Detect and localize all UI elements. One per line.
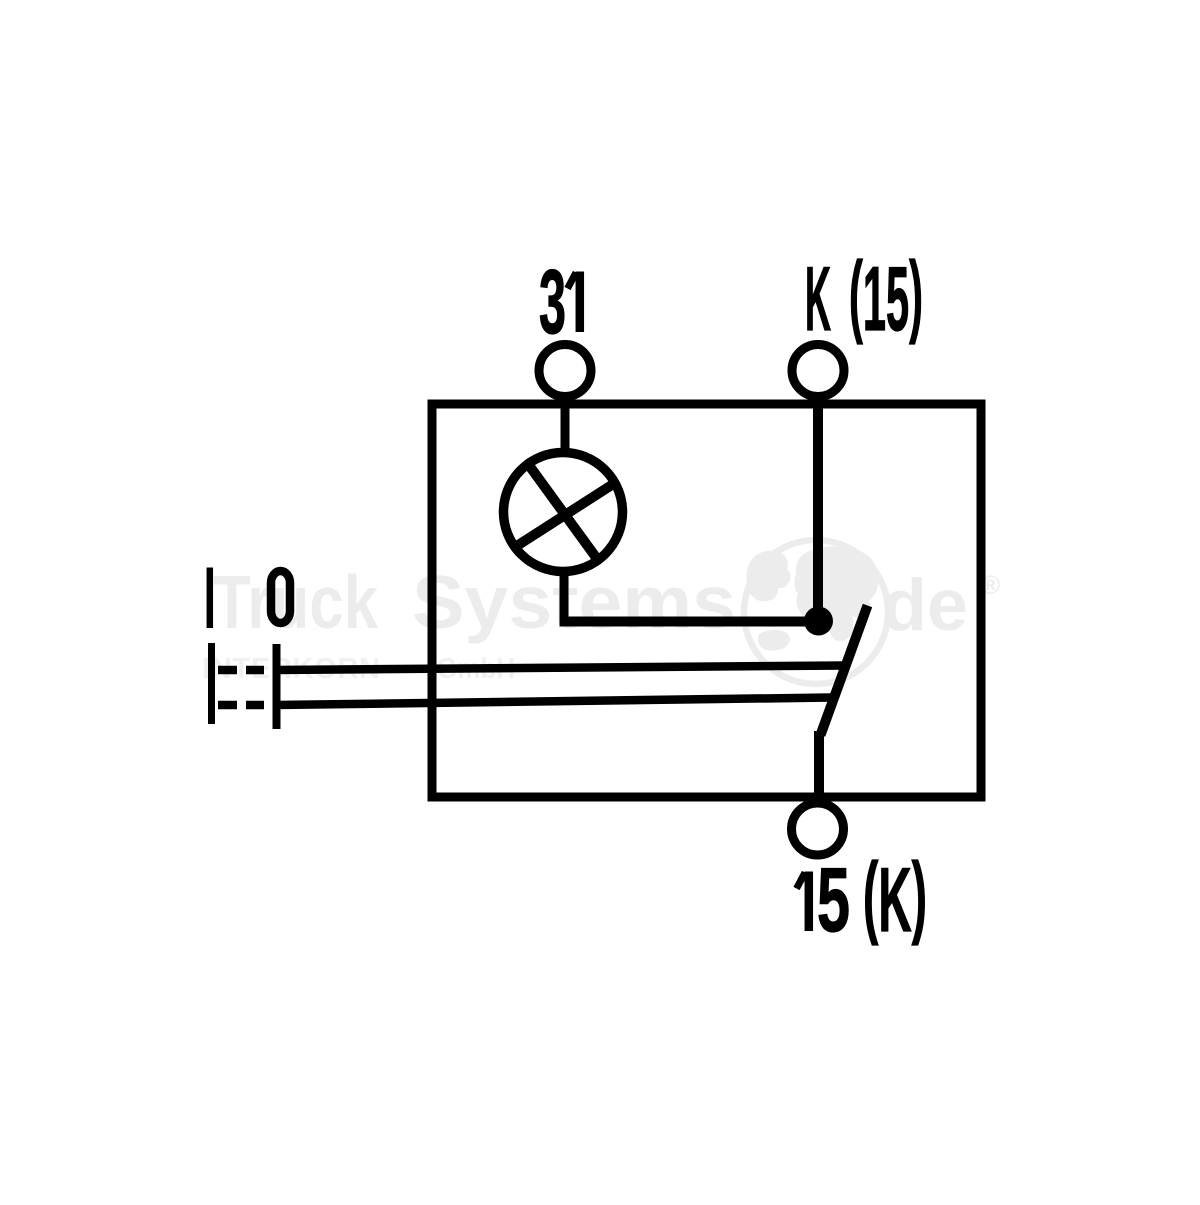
wire K(15) down to junction [813,396,823,621]
terminal 15(K) label [805,872,814,932]
wire 31 to lamp [561,394,570,455]
actuator dashed link lower [218,701,264,710]
svg-text:(15): (15) [849,244,923,350]
switch body box [432,404,981,797]
wire lamp to junction [560,617,819,627]
actuator rod lower [276,698,832,706]
wire lever to terminal 15(K) [814,731,824,806]
lamp cross stroke 2 [514,482,616,547]
svg-text:(K): (K) [863,845,927,951]
watermark globe [744,540,888,684]
svg-text:Truck: Truck [213,560,378,644]
actuator rod upper [276,666,845,671]
svg-text:K: K [805,249,831,350]
terminal K(15) circle [792,345,844,397]
svg-text:3: 3 [539,252,566,353]
actuator position label 0 [271,571,290,623]
svg-text:5: 5 [817,850,850,951]
actuator bar right [273,644,281,729]
wire lamp down [560,573,569,622]
lamp L1 [504,453,623,572]
junction dot [804,607,833,636]
svg-text:de: de [882,565,968,646]
terminal 15(K) circle [792,803,844,855]
actuator dashed link upper [218,666,264,675]
switch lever contact [821,606,868,736]
actuator position label I [207,568,214,629]
actuator bar left [208,643,215,724]
terminal 31 circle [539,345,591,397]
lamp cross stroke 1 [528,464,599,561]
